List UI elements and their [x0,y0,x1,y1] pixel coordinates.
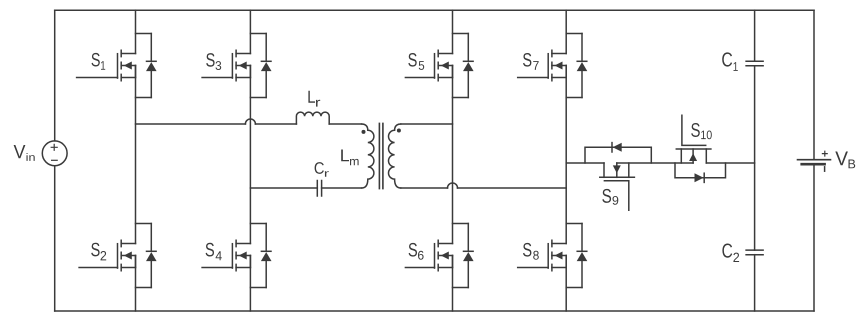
body diode D8 upper wire [581,224,583,252]
transistor S1 gate plate [117,54,119,78]
body diode D4 loop bottom wire [250,287,266,289]
transistor S9 gate plate and lead [604,181,628,210]
body diode D3 loop top wire [250,33,266,35]
wire hop to Lr [255,123,296,125]
transistor S3 source stub [236,77,250,79]
wire S9 source to S10 source [617,162,693,164]
battery VB short plate [802,163,825,166]
body diode D6 loop top wire [453,223,469,225]
wire right rail lower [813,166,815,312]
transistor S10 drain stub [705,149,707,163]
wire hop to leg4 [458,187,567,189]
wire left rail lower [54,166,56,311]
transistor S7 body stub and arrow [552,65,566,67]
body diode D4 loop top wire [250,223,266,225]
transformer primary polarity dot [362,130,366,134]
transistor S5 gate lead [405,77,434,79]
wire leg1 (S1/S2) middle segment [135,66,137,244]
wire right rail upper [813,10,815,160]
label S6 [409,243,417,257]
label C1 [722,52,732,66]
body diode DS10 cathode bar [703,173,705,182]
wire left rail upper [54,10,56,141]
transistor S4 gate lead [202,267,232,269]
body diode D8 cathode bar [577,250,587,252]
transistor S6 gate plate [434,244,436,268]
body diode D2 loop bottom wire [136,287,152,289]
transistor S4 source-body link [249,256,251,268]
body diode D7 upper wire [581,34,583,62]
transistor S4 source stub [236,267,250,269]
body diode D4 cathode bar [261,250,271,252]
label Cr [315,162,324,174]
wire bottom rail [55,310,814,312]
transformer secondary winding [388,124,400,188]
wire Cr to transformer [322,187,362,189]
body diode D3 upper wire [265,34,267,62]
transistor S2 channel [120,240,122,270]
transistor S1 source-body link [135,66,137,78]
transistor S4 drain stub [236,243,250,245]
voltage source Vin plus mark [51,144,57,150]
transistor S7 drain stub [552,53,566,55]
body diode D7 lower wire [581,71,583,97]
transistor S6 body stub and arrow [438,255,452,257]
inductor Lr [296,112,329,124]
transistor S5 channel [437,50,439,80]
transistor S6 source stub [438,267,452,269]
capacitor Cr plates [317,181,321,197]
transistor S5 drain stub [438,53,452,55]
body diode D2 upper wire [150,224,152,252]
transistor S10 source stub [680,149,682,163]
wire AC top from leg1 to hop [136,123,246,125]
body diode D6 lower wire [467,261,469,287]
voltage source Vin circle [42,141,67,166]
label S10 [691,123,700,137]
transistor S6 drain stub [438,243,452,245]
transistor S7 gate plate [547,54,549,78]
transistor S1 gate lead [77,77,118,79]
transistor S6 source-body link [452,256,454,268]
transistor S1 body stub and arrow [121,65,135,67]
body diode D6 cathode bar [464,250,474,252]
body diode DS10 triangle pointing right [695,173,704,182]
transistor S7 source stub [552,77,566,79]
body diode D3 triangle [261,62,272,71]
battery VB minus tick [824,167,826,171]
wire leg4 (S7/S8) bottom segment [565,256,567,312]
transistor S8 source stub [552,267,566,269]
label Lm [341,149,349,161]
transistor S8 channel [551,240,553,270]
body diode D7 loop bottom wire [566,97,582,99]
body diode D7 triangle [577,62,588,71]
body diode D2 loop top wire [136,223,152,225]
transistor S2 body stub and arrow [121,255,135,257]
wire transformer top to leg3 [401,123,453,125]
label S8 [523,243,531,257]
wire C leg bottom segment [754,255,756,311]
capacitor C1 plates [746,61,763,66]
body diode D8 triangle [577,252,588,261]
body diode D3 cathode bar [261,60,271,62]
transistor S3 body stub and arrow [236,65,250,67]
label S9 [602,189,611,203]
label Lr [308,91,315,103]
wire leg4 to S9 drain [566,162,604,164]
wire leg2 (S3/S4) middle segment [249,66,251,244]
transistor S10 channel [676,148,711,150]
transistor S3 drain stub [236,53,250,55]
label S4 [206,243,214,257]
label S1 [92,53,100,67]
wire leg3 (S5/S6) middle segment [452,66,454,244]
body diode D4 lower wire [265,261,267,287]
label C2 [722,243,732,257]
transistor S8 source-body link [565,256,567,268]
wire leg3 (S5/S6) top segment [452,10,454,53]
wire transformer bottom to hop [401,187,448,189]
transistor S5 source stub [438,77,452,79]
body diode D2 lower wire [150,261,152,287]
transistor S2 source-body link [135,256,137,268]
transistor S3 gate lead [202,77,232,79]
label S7 [523,53,531,67]
transistor S9 source stub [628,163,630,177]
transistor S6 channel [437,240,439,270]
transformer secondary polarity dot [397,129,401,133]
battery VB long plate [798,159,831,161]
transistor S7 source-body link [565,66,567,78]
body diode D7 cathode bar [577,60,587,62]
transistor S8 gate plate [547,244,549,268]
body diode D2 cathode bar [147,250,157,252]
wire leg4 (S7/S8) top segment [565,10,567,53]
transistor S1 channel [120,50,122,80]
label S5 [408,53,416,67]
label S2 [91,243,99,257]
transistor S2 source stub [121,267,135,269]
body diode D8 loop top wire [566,223,582,225]
transistor S8 gate lead [518,267,549,269]
body diode D5 triangle [463,62,474,71]
body diode D7 loop top wire [566,33,582,35]
transistor S9 drain stub [603,163,605,177]
transistor S9 body stub and arrow [616,163,618,177]
transistor S7 gate lead [518,77,549,79]
wire top rail [55,9,814,11]
transistor S1 drain stub [121,53,135,55]
wire leg2 (S3/S4) top segment [249,10,251,53]
body diode D6 upper wire [467,224,469,252]
body diode D5 lower wire [467,71,469,97]
body diode D5 loop top wire [453,33,469,35]
body diode D6 loop bottom wire [453,287,469,289]
body diode D1 triangle [146,62,157,71]
body diode D3 lower wire [265,71,267,97]
body diode D1 loop top wire [136,33,152,35]
wire hop over leg2 [245,119,255,124]
transistor S6 gate lead [405,267,434,269]
body diode D3 loop bottom wire [250,97,266,99]
body diode D1 lower wire [150,71,152,97]
body diode D8 lower wire [581,261,583,287]
body diode D1 cathode bar [147,60,157,62]
transistor S3 source-body link [249,66,251,78]
label Vin [14,145,26,158]
body diode D5 cathode bar [464,60,474,62]
transistor S2 gate plate [117,244,119,268]
transistor S4 body stub and arrow [236,255,250,257]
transistor S4 gate plate [231,244,233,268]
label VB [835,152,848,166]
capacitor C2 plates [746,250,763,255]
transistor S5 source-body link [452,66,454,78]
transistor S4 channel [235,240,237,270]
transformer primary winding Lm [362,124,374,188]
wire C leg middle segment [754,66,756,250]
body diode D2 triangle [146,252,157,261]
transistor S7 channel [551,50,553,80]
body diode D1 upper wire [150,34,152,62]
transistor S8 body stub and arrow [552,255,566,257]
transistor S5 body stub and arrow [438,65,452,67]
body diode DS9 cathode bar [611,143,613,152]
transistor S5 gate plate [434,54,436,78]
transistor S10 gate plate and lead [682,115,706,145]
label S3 [206,53,214,67]
voltage source Vin minus mark [52,159,58,161]
body diode D6 triangle [463,252,474,261]
wire Lr to transformer [329,123,361,125]
wire leg2 (S3/S4) bottom segment [249,256,251,312]
wire S10 drain to C leg [706,162,754,164]
body diode DS10 loop [675,163,726,178]
transistor S2 drain stub [121,243,135,245]
transistor S9 channel [600,176,635,178]
transistor S3 channel [235,50,237,80]
body diode D5 loop bottom wire [453,97,469,99]
body diode DS9 loop [585,147,651,163]
body diode D5 upper wire [467,34,469,62]
body diode DS9 triangle pointing left [613,143,622,152]
body diode D1 loop bottom wire [136,97,152,99]
transistor S1 source stub [121,77,135,79]
transistor S8 drain stub [552,243,566,245]
wire leg1 (S1/S2) top segment [135,10,137,53]
battery VB plus mark [822,151,827,156]
wire leg4 (S7/S8) middle segment [565,66,567,244]
transistor S10 body stub and arrow [692,149,694,163]
body diode D4 upper wire [265,224,267,252]
transistor S2 gate lead [79,267,117,269]
wire AC bottom from leg2 to Cr [250,187,317,189]
transistor S3 gate plate [231,54,233,78]
wire C leg top segment [754,10,756,61]
body diode D8 loop bottom wire [566,287,582,289]
body diode D4 triangle [261,252,272,261]
transformer core [379,123,383,188]
wire leg1 (S1/S2) bottom segment [135,256,137,312]
wire hop over leg3 [448,183,458,188]
wire leg3 (S5/S6) bottom segment [452,256,454,312]
